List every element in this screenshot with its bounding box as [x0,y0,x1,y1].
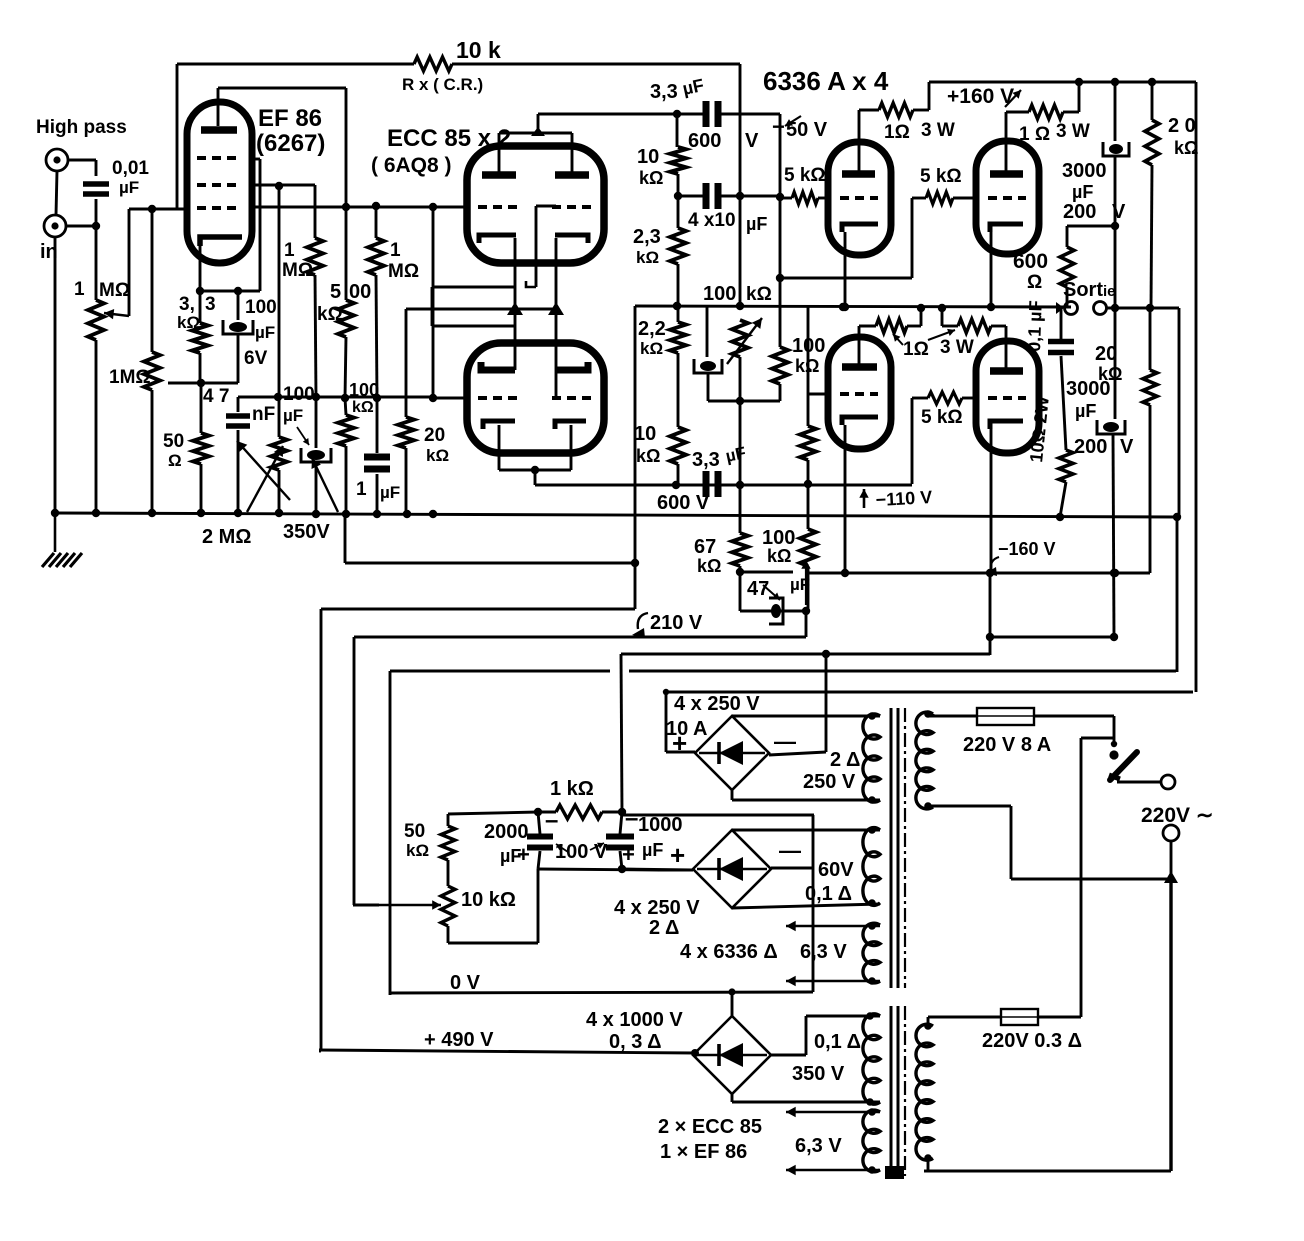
resistor R19 1ohm 3W [879,103,913,117]
wire C6 leads [677,113,703,116]
svg-text:600 V: 600 V [657,492,710,514]
wire P2 to bus [278,470,281,513]
wire y485 line [535,484,912,487]
wire R21 to bus [1063,111,1079,114]
input jack J2 in [44,215,66,237]
wire top rail right of R [452,63,740,66]
svg-text:kΩ: kΩ [746,284,772,305]
EF86 plate [201,126,237,134]
node W3 top [868,922,876,930]
capacitor C10 100uF splitter [700,361,716,371]
wire x433 down [432,207,435,397]
wire P1 top [932,714,935,716]
wire x621 drop [621,654,622,812]
wire D3 top [731,992,734,1017]
node W2 top [868,826,876,834]
resistor R26 600 [1060,247,1074,287]
tube V5 6336A [976,141,1039,254]
wire x1115 from bus [1114,82,1117,141]
capacitor C1 0,01uF [83,181,109,187]
bridge rectifier D3 [693,1016,771,1094]
winding P1 220V 8A [916,712,933,809]
V2 cathode right [555,235,588,243]
svg-text:−110 V: −110 V [875,487,933,510]
svg-text:1: 1 [356,479,367,500]
node y485 x678 [672,481,680,489]
wire R30 leads [538,811,556,814]
svg-text:1Ω: 1Ω [903,339,929,360]
winding P2 220V 0,3A [916,1024,933,1160]
ground symbol [54,513,57,552]
svg-text:V: V [1112,201,1126,223]
V5 grid dashes [988,196,1026,200]
V2 mid stub hook [526,281,536,287]
-160V arrow [991,557,999,571]
svg-text:High pass: High pass [36,117,127,138]
fuse F2 0,3A [1001,1009,1038,1025]
V5 cathode lead [990,232,993,307]
-110V stub arrow [805,560,807,605]
resistor R14 10k [670,427,686,464]
cath junction arrows [507,302,523,315]
capacitor C15 1000uF [606,834,634,840]
resistor R21 1ohm 3W [1029,105,1063,119]
svg-text:1000: 1000 [638,814,683,836]
svg-text:µF: µF [255,323,275,342]
capacitor C12 3000uF lower [1103,422,1119,432]
wire switch to terminal [1117,781,1161,784]
V3 plate left [481,362,515,370]
wire x780 top [779,114,782,197]
svg-text:2 Δ: 2 Δ [649,917,679,939]
V4 grid dashes [840,196,878,200]
wire B+ riser x1196 [1195,120,1198,692]
wire R20 leads [780,197,792,200]
svg-text:10 kΩ: 10 kΩ [461,889,516,911]
svg-text:5 kΩ: 5 kΩ [784,165,826,186]
node y485 x808 [804,480,812,488]
label 1ohm arrow a [893,334,903,345]
V7 plate lead [1005,326,1008,368]
wire cath bus drop [405,309,408,417]
capacitor C8 3,3uF lower [703,471,710,497]
V3 plate right [556,362,588,370]
svg-text:( 6AQ8 ): ( 6AQ8 ) [371,154,452,177]
cap C2 top lead [237,291,240,320]
wire x826 drop to bridge [825,654,828,752]
node V6 cath -160 [841,569,849,577]
V2 plate leads [498,133,501,172]
svg-text:5 kΩ: 5 kΩ [920,166,962,187]
wire cathode bus y309 [406,308,556,311]
svg-text:3000: 3000 [1062,160,1107,182]
node P2 bottom [924,1154,932,1162]
wire cathode bus y291 [200,290,260,293]
tube V1 EF86 envelope [187,102,252,263]
svg-text:V: V [1120,436,1134,458]
svg-text:4 x 250 V: 4 x 250 V [614,897,700,919]
wire bottom rail y869 [538,869,660,870]
P4 wiper arrow [379,904,441,906]
svg-text:µF: µF [283,406,303,425]
wire x990 rise [989,573,992,655]
wire C10 bottom [707,373,710,401]
node W2 bottom [868,899,876,907]
capacitor C11 3000uF [1109,144,1123,154]
wire P2 top [927,1017,930,1026]
V3 plate lead left [432,325,515,328]
wire -160V bus [809,572,1150,575]
EF86 plate lead [217,88,220,126]
wire y869 to D2 [622,869,693,870]
svg-text:2 MΩ: 2 MΩ [202,526,251,548]
svg-text:100: 100 [703,283,736,305]
svg-text:3 W: 3 W [921,120,955,141]
svg-text:50: 50 [163,431,184,452]
terminal 220V b [1163,825,1179,841]
wire x740 mid [739,196,742,306]
svg-text:1 Ω: 1 Ω [1019,124,1050,145]
svg-text:47: 47 [747,578,769,600]
wire C7 leads [678,195,703,198]
terminal 220V a [1161,775,1175,789]
wire W5 top arrow [786,1111,880,1113]
wire y383 to cap leg [201,382,238,385]
fuse F1 8A [977,708,1034,725]
wire R25 drop [911,398,914,484]
resistor R12 2,3k [670,228,686,264]
svg-text:2,3: 2,3 [633,226,661,248]
V7 grid dashes [988,396,1026,400]
svg-text:kΩ: kΩ [640,339,663,358]
wire x806 to 210V corner [805,611,808,637]
node V4 cath join [841,303,849,311]
wire D1 bottom [731,789,734,800]
wire y278 line [780,277,912,280]
wire x678 top [676,114,679,147]
wire R23 to bus [907,325,921,328]
resistor R27 20k [1145,120,1159,165]
capacitor C4 100uF 350V [307,450,325,460]
wire x432 riser [431,287,434,326]
svg-text:EF 86: EF 86 [258,105,322,132]
svg-text:kΩ: kΩ [636,446,660,466]
wire 47nF top line [237,397,240,412]
wire W3 top arrow [786,925,880,927]
wire R9b leads [345,398,346,415]
node mid y306 [673,302,681,310]
svg-text:200: 200 [1074,436,1107,458]
svg-text:5 kΩ: 5 kΩ [921,407,963,428]
resistor R9b 100k [338,415,354,446]
winding W5 6,3V small [863,1110,880,1172]
svg-text:0,1 Δ: 0,1 Δ [814,1031,861,1053]
wire lower-left grid wire [808,393,828,396]
wire gnd drop x345 [344,514,347,563]
V7 cathode lead [990,429,993,573]
resistor R30 1k [556,805,602,819]
-110V arrow [863,489,866,508]
resistor R23 1ohm 3W [876,319,907,333]
svg-text:20: 20 [1095,343,1117,365]
svg-text:0,01: 0,01 [112,158,149,179]
resistor R28 20k [1143,370,1157,405]
wire 50ohm col [200,383,203,433]
potentiometer P1 1M [88,300,104,340]
svg-text:MΩ: MΩ [99,280,130,301]
V3 cathode right [555,421,586,429]
tube V2 ECC85 upper [467,146,604,263]
V6 plate lead [858,326,861,364]
svg-text:Sortie: Sortie [1063,279,1116,301]
wire D2 top line [732,829,880,832]
svg-text:3 W: 3 W [1056,121,1090,142]
svg-text:0,1 µF: 0,1 µF [1024,300,1046,352]
output circle right [1094,302,1107,315]
wire R19 to bus [913,109,929,112]
svg-text:3,: 3, [179,294,195,315]
svg-text:350 V: 350 V [792,1063,845,1085]
node 1k left [534,808,542,816]
resistor R2 1M [144,352,160,390]
svg-text:6V: 6V [244,348,268,369]
svg-text:–: – [545,807,558,834]
wire output bus [635,306,1071,307]
wire sortie right [1106,307,1179,310]
wire x808 top [807,306,810,394]
node V3 cath [531,466,539,474]
V5 cathode [990,224,1023,232]
V2 plate left [482,171,516,179]
node W5 bottom [868,1166,876,1174]
wire top rail left drop [176,64,179,208]
P3 arrow [727,318,762,364]
svg-text:4 x10: 4 x10 [688,210,736,231]
wire ground bus [55,513,1177,517]
capacitor C2 100uF 6V [229,322,247,332]
capacitor C9 47uF [771,604,781,618]
node A input [92,222,100,230]
node grid lower [429,394,437,402]
node top bus dots [1075,78,1083,86]
V3 grid dashes left [478,396,520,400]
wire C3 bottom to bus [237,430,240,513]
svg-text:1 × EF 86: 1 × EF 86 [660,1141,747,1163]
node y654 x826 [822,650,830,658]
node x740 y401 [736,397,744,405]
wire C14 leads [538,812,540,834]
V3 cathode leads [498,425,501,470]
svg-text:nF: nF [252,404,275,425]
svg-text:100: 100 [349,380,379,400]
svg-text:350V: 350V [283,521,330,543]
potentiometer P3 100k [732,320,748,357]
svg-text:210 V: 210 V [650,612,703,634]
svg-text:kΩ: kΩ [767,546,791,566]
svg-text:600: 600 [688,130,721,152]
svg-text:6336 A x 4: 6336 A x 4 [763,66,889,96]
wire R14 bottom [677,464,680,485]
wire C8 leads [676,484,703,487]
svg-text:kΩ: kΩ [697,556,721,576]
node W4 top [866,1012,874,1020]
wire y654 -160 link [621,653,990,656]
wire jack1 to cap top [68,159,96,162]
node P1 bottom [924,802,932,810]
wire x1061 sortie [1060,308,1063,339]
wire x354 drop [353,637,356,905]
wire grid2 out [252,184,315,187]
EF86 grid3 stub to cathode [252,158,260,161]
wire jack1 to jack2 [56,171,57,215]
wire R4 to node y383 [199,353,202,383]
arrow to 350V cap [312,458,338,512]
wire lower grid line [433,397,467,400]
V4 cathode [842,224,878,232]
svg-text:µF: µF [642,840,663,860]
EF86 grid1 dashes [197,206,242,210]
wire 600ohm bottom [1066,287,1069,302]
winding W2 60V [863,828,880,906]
wire R15 bottom [739,566,742,572]
svg-text:–: – [625,805,638,832]
wire x1152 top [1151,82,1154,120]
wire 0V line [390,992,813,993]
wire x1177 to y672 [1176,517,1179,672]
wire x433 branch y287 [433,286,515,289]
wire pot to bus [95,340,98,513]
resistor R17 100k grid [800,426,816,460]
wire 50k to pot [447,860,450,886]
node y114 [673,110,681,118]
node W1 bottom [868,796,876,804]
wire D3 bottom [731,1094,734,1102]
wire V4 plate to R [859,109,879,112]
bridge rectifier D1 [695,716,769,790]
wire x707 stub [706,306,709,357]
node V7 cath -160 [986,569,994,577]
V6 cathode [842,417,878,425]
svg-text:4 x 6336 Δ: 4 x 6336 Δ [680,941,778,963]
wire x740 y485-533 [739,485,742,533]
sortie left mark [1056,302,1064,314]
wire C5 to bus [376,474,379,513]
wire 600ohm top [1066,226,1069,247]
svg-text:200: 200 [1063,201,1096,223]
svg-text:100: 100 [245,297,277,318]
node W4 bottom [866,1098,874,1106]
node out dots [673,302,681,310]
node sortie dots [1111,304,1119,312]
svg-text:—: — [774,729,796,754]
wire bottom U y401 [708,400,780,403]
svg-text:220V ∼: 220V ∼ [1141,804,1213,827]
wire grid line to ECC85 [252,206,467,209]
svg-text:2 × ECC 85: 2 × ECC 85 [658,1116,762,1138]
svg-text:µF: µF [1072,182,1093,202]
wire W5 bottom arrow [786,1169,880,1171]
wire x780 mid [779,197,782,278]
svg-text:(6267): (6267) [256,130,325,157]
resistor R10 20k [398,417,414,448]
svg-text:µF: µF [380,483,400,502]
svg-text:3,3: 3,3 [692,449,720,471]
wire x780 lower [779,278,782,347]
-50V arrow [785,116,801,126]
transformer core T1 [890,708,893,988]
EF86 cathode [200,237,242,246]
wire R28 bottom [1149,405,1152,573]
svg-text:Ω: Ω [168,451,182,470]
V4 plate [842,170,875,178]
wire D1 plus out [666,751,695,754]
resistor R25 5k lower [928,392,962,404]
resistor R7 500k [338,300,354,337]
wire P4 bottom [447,926,450,943]
node C7 right x780 [776,193,784,201]
wire C15 leads [620,812,622,834]
svg-text:4 x 1000 V: 4 x 1000 V [586,1009,683,1031]
svg-text:50: 50 [404,821,425,842]
wire 1M top [151,209,154,352]
wire x346 down [345,207,348,300]
wire R27 bottom [1151,165,1152,308]
tube V4 6336A [828,142,891,255]
EF86 cathode left leg [199,246,202,291]
resistor R29 10ohm 2W [1059,450,1073,482]
svg-text:kΩ: kΩ [406,841,429,860]
node 1k right [618,808,626,816]
wire V7 plate to R [991,325,1006,328]
C9 arrow [763,585,780,600]
wire R17 bottom [807,460,810,484]
wire x1150 top [1149,308,1152,370]
svg-text:1: 1 [74,279,85,300]
svg-text:2 Δ: 2 Δ [830,749,860,771]
winding W1 250V [863,714,880,802]
node W3 bottom [868,977,876,985]
wire R5 to bus [200,464,203,513]
wire R22 leads [912,197,926,200]
wire R13 leads [677,306,680,322]
wire x315 riser [314,185,317,238]
wire R10 to bus [405,448,408,513]
capacitor C6 3,3uF [703,101,710,127]
tube V6 6336A [828,337,891,449]
svg-text:R x ( C.R.): R x ( C.R.) [402,75,483,94]
V6 grid dashes [840,392,878,396]
capacitor C3 47nF [226,413,250,419]
wire x390 drop [389,671,392,995]
node W5 top [868,1108,876,1116]
wire R2 bottom to bus [151,390,154,513]
wire +490V line [319,1050,695,1053]
wire P1 bottom [928,805,1011,808]
wire D3 right [771,1054,806,1057]
node y563 x635 [631,559,639,567]
node 200V [1111,222,1119,230]
resistor R18 100k lower [800,529,816,566]
svg-text:+: + [670,840,685,870]
winding W3 6,3V heaters [863,923,880,983]
svg-text:−: − [772,114,785,139]
svg-text:2 0: 2 0 [1168,115,1196,137]
svg-text:+160 V: +160 V [947,85,1014,108]
V2 plate right [555,171,589,179]
svg-text:20: 20 [424,425,445,446]
resistor R20 5k [792,192,818,204]
node 47nF line dots [274,393,282,401]
